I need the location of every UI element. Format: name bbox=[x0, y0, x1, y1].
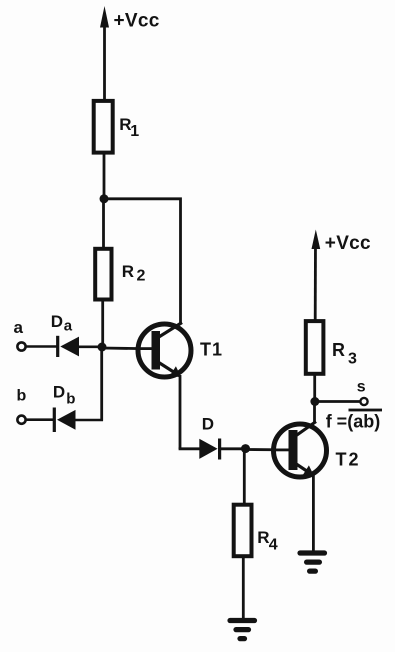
svg-text:f =(ab): f =(ab) bbox=[326, 412, 381, 432]
svg-text:a: a bbox=[14, 318, 24, 337]
svg-text:D: D bbox=[51, 312, 63, 331]
svg-text:4: 4 bbox=[269, 537, 278, 554]
wire: node B down to Db row bbox=[100, 347, 103, 421]
wire: T1 emitter down bbox=[179, 375, 182, 449]
diode Db bbox=[54, 408, 75, 433]
wire: Da to node B bbox=[79, 345, 103, 348]
wire: terminal a to diode Da bbox=[26, 345, 57, 348]
diode Da bbox=[58, 336, 79, 357]
transistor T2 bbox=[274, 422, 327, 478]
node B (diode junction dot) bbox=[98, 343, 107, 352]
wire: R1 bottom to node A bbox=[103, 153, 106, 200]
svg-text:R: R bbox=[332, 340, 345, 360]
power +Vcc arrow (left rail) bbox=[100, 6, 109, 101]
wire: R3 bottom to node D bbox=[313, 374, 316, 402]
input terminal a bbox=[17, 342, 25, 350]
wire: Db to node B vertical bbox=[76, 419, 104, 422]
node A (junction below R1) bbox=[100, 194, 109, 203]
wire: node A down to R2 bbox=[102, 199, 105, 249]
wire: node B to T1 base bbox=[102, 347, 152, 351]
label Da bbox=[51, 312, 73, 334]
wire: R4 to ground bbox=[242, 556, 245, 620]
wire: emitter corner to diode D bbox=[179, 447, 200, 450]
resistor R3 bbox=[306, 321, 324, 374]
svg-text:R: R bbox=[257, 528, 269, 547]
node C (junction at T2 base) bbox=[241, 444, 250, 453]
wire: node C down to R4 bbox=[243, 449, 246, 505]
wire: node D to output s bbox=[315, 400, 360, 403]
output terminal s bbox=[360, 398, 367, 405]
svg-text:D: D bbox=[202, 415, 214, 434]
svg-text:+Vcc: +Vcc bbox=[114, 10, 160, 31]
transistor T1 bbox=[138, 323, 191, 378]
wire: terminal b to diode Db bbox=[26, 418, 54, 421]
svg-text:D: D bbox=[53, 383, 65, 402]
svg-text:T2: T2 bbox=[336, 450, 361, 470]
wire: node A right then down to T1 collector bbox=[104, 199, 181, 324]
label R3 bbox=[332, 340, 357, 368]
wire: node D down to T2 collector bbox=[313, 402, 316, 424]
label Db bbox=[53, 383, 76, 408]
wire: node C to T2 base bbox=[246, 448, 290, 451]
resistor R4 bbox=[234, 505, 252, 557]
svg-text:a: a bbox=[64, 317, 73, 334]
resistor R1 bbox=[94, 101, 113, 153]
svg-text:+Vcc: +Vcc bbox=[325, 233, 371, 254]
diode D bbox=[199, 439, 219, 460]
wire: R2 bottom to node B bbox=[101, 300, 104, 348]
svg-text:1: 1 bbox=[130, 123, 139, 140]
svg-text:2: 2 bbox=[137, 267, 146, 284]
label R2 bbox=[122, 262, 146, 285]
wire: T2 emitter to ground bbox=[312, 474, 315, 553]
label R4 bbox=[257, 528, 278, 554]
node D (output junction) bbox=[310, 397, 319, 406]
svg-text:b: b bbox=[17, 387, 27, 404]
ground (T2 emitter) bbox=[300, 553, 325, 571]
svg-text:3: 3 bbox=[348, 351, 357, 368]
resistor R2 bbox=[95, 249, 111, 300]
label f=(ab) with overline bbox=[326, 409, 382, 432]
power +Vcc arrow (right rail) bbox=[312, 230, 321, 322]
ground (below R4) bbox=[230, 621, 255, 639]
svg-text:T1: T1 bbox=[200, 340, 223, 360]
svg-text:R: R bbox=[122, 262, 134, 281]
input terminal b bbox=[17, 416, 25, 424]
label R1 bbox=[119, 115, 139, 140]
wire: D to node C bbox=[220, 447, 246, 450]
svg-text:s: s bbox=[357, 378, 366, 395]
svg-text:b: b bbox=[66, 391, 75, 408]
